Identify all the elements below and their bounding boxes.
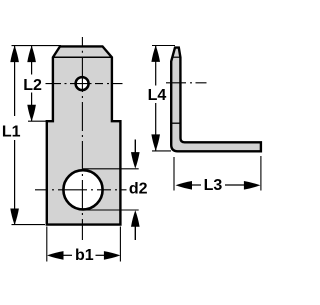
horizontal centerline big hole bbox=[35, 189, 127, 191]
extension line L4 bottom bbox=[152, 150, 171, 152]
svg-text:L3: L3 bbox=[204, 177, 223, 194]
extension line top (L1/L2) bbox=[12, 45, 62, 47]
side view seam line bbox=[171, 122, 180, 124]
tab fold line bbox=[53, 56, 112, 58]
L4 arrow up bbox=[151, 45, 160, 62]
svg-text:L2: L2 bbox=[23, 77, 42, 94]
b1 arrow right bbox=[104, 251, 121, 260]
svg-text:L4: L4 bbox=[148, 87, 167, 104]
b1 arrow left bbox=[47, 251, 64, 260]
d2 arrow up (below) bbox=[131, 210, 140, 227]
front view terminal body outline bbox=[47, 46, 121, 224]
big hole d2 bbox=[63, 170, 102, 209]
svg-text:L1: L1 bbox=[2, 123, 21, 140]
extension line b1 left bbox=[46, 227, 48, 262]
side view centerline bbox=[166, 82, 207, 84]
dimension b1 line bbox=[63, 254, 73, 256]
vertical centerline front view bbox=[81, 37, 83, 240]
L2 arrow down bbox=[27, 105, 36, 122]
extension line bottom (L1) bbox=[12, 224, 46, 226]
dimension L2 line bbox=[31, 46, 33, 75]
small hole bbox=[76, 77, 89, 90]
L1 arrow up bbox=[10, 46, 19, 63]
dimension L3 line bbox=[191, 184, 202, 186]
extension line step (L2) bbox=[28, 120, 46, 122]
side view tip base line bbox=[173, 56, 181, 58]
horizontal centerline small hole bbox=[46, 83, 123, 85]
svg-text:b1: b1 bbox=[75, 247, 94, 264]
extension line L3 left bbox=[173, 157, 175, 191]
L1 arrow down bbox=[10, 209, 19, 226]
extension line b1 right bbox=[119, 227, 121, 262]
side view L-bracket bbox=[171, 48, 261, 152]
d2 arrow down (above) bbox=[134, 140, 136, 154]
dimension L4 line bbox=[155, 45, 157, 85]
extension line L3 right bbox=[260, 156, 262, 191]
L3 arrow left bbox=[176, 181, 193, 190]
dimension L1 line bbox=[14, 46, 16, 116]
L4 arrow down bbox=[151, 134, 160, 151]
extension line d2 top tangent bbox=[83, 168, 139, 170]
svg-text:d2: d2 bbox=[129, 181, 148, 198]
L3 arrow right bbox=[244, 181, 261, 190]
extension line L4 top bbox=[152, 45, 175, 47]
extension line d2 bottom tangent bbox=[83, 209, 139, 211]
L2 arrow up bbox=[27, 46, 36, 63]
